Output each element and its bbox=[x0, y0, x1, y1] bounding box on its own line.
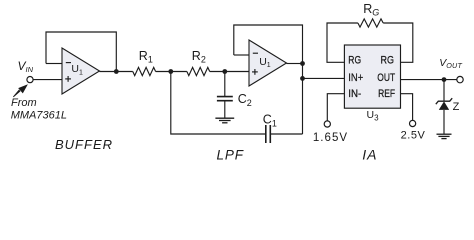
svg-text:REF: REF bbox=[378, 88, 395, 100]
svg-text:From: From bbox=[11, 97, 37, 109]
op-amp U1 (LPF half) bbox=[249, 40, 287, 86]
wire IA RG left pin bbox=[327, 23, 358, 62]
svg-text:OUT: OUT bbox=[377, 72, 395, 84]
wire IA REF to 2.5V terminal bbox=[401, 94, 413, 121]
op-amp U1 (buffer half) bbox=[62, 48, 100, 94]
resistor RG bbox=[358, 2, 383, 27]
svg-text:IN-: IN- bbox=[348, 88, 361, 100]
junction LPF output node bbox=[300, 61, 305, 66]
wire LPF output riser bbox=[302, 64, 304, 135]
junction buffer output node bbox=[114, 69, 119, 74]
wire zener to ground bbox=[443, 110, 445, 134]
IA U3 body bbox=[344, 45, 400, 108]
svg-text:IA: IA bbox=[362, 146, 377, 162]
resistor R1 bbox=[133, 49, 156, 76]
junction node B bbox=[222, 69, 227, 74]
wire U1 inverting input stub bbox=[46, 63, 62, 65]
junction VOUT node bbox=[442, 77, 447, 82]
resistor R2 bbox=[187, 49, 210, 76]
wire node A to C1 bbox=[171, 72, 266, 135]
terminal 1.65V bbox=[324, 121, 330, 127]
capacitor C1 bbox=[263, 113, 277, 143]
wire IA OUT to VOUT bbox=[401, 79, 457, 81]
svg-text:LPF: LPF bbox=[217, 147, 244, 162]
wire U1 LPF inverting input stub bbox=[234, 54, 249, 56]
junction LPF-to-IA tap bbox=[300, 76, 305, 81]
wire buffer output bbox=[100, 71, 133, 73]
capacitor C2 bbox=[217, 72, 252, 118]
wire R1 to R2 bbox=[156, 71, 187, 73]
wire to IA IN+ bbox=[303, 77, 345, 79]
junction node A bbox=[168, 69, 173, 74]
svg-text:IN+: IN+ bbox=[348, 72, 363, 84]
terminal 2.5V bbox=[410, 120, 416, 126]
zener diode Z bbox=[436, 98, 452, 110]
wire VOUT node to zener bbox=[443, 80, 445, 102]
wire LPF feedback loop bbox=[234, 25, 303, 64]
svg-text:Z: Z bbox=[453, 101, 460, 113]
svg-text:1.65V: 1.65V bbox=[313, 132, 348, 144]
wire IA RG right pin bbox=[383, 23, 413, 62]
wire IA IN- to 1.65V terminal bbox=[327, 94, 344, 121]
wire C1 to LPF output riser bbox=[270, 133, 302, 135]
ground (C2) bbox=[215, 118, 234, 123]
terminal VIN bbox=[27, 77, 33, 83]
terminal VOUT bbox=[457, 76, 463, 82]
svg-text:BUFFER: BUFFER bbox=[55, 137, 113, 152]
wire buffer feedback loop bbox=[46, 32, 116, 72]
wire LPF output bbox=[287, 63, 303, 65]
svg-text:2.5V: 2.5V bbox=[401, 130, 426, 142]
wire R2 to U1 LPF noninverting input bbox=[210, 71, 250, 73]
annotation From MMA7361L bbox=[11, 97, 67, 122]
svg-text:RG: RG bbox=[348, 55, 361, 67]
ground (zener) bbox=[437, 134, 452, 138]
svg-text:MMA7361L: MMA7361L bbox=[11, 109, 67, 121]
wire VIN to U1 noninverting input bbox=[33, 79, 62, 81]
annotation arrow (from sensor) bbox=[13, 84, 28, 97]
svg-text:RG: RG bbox=[381, 55, 395, 67]
